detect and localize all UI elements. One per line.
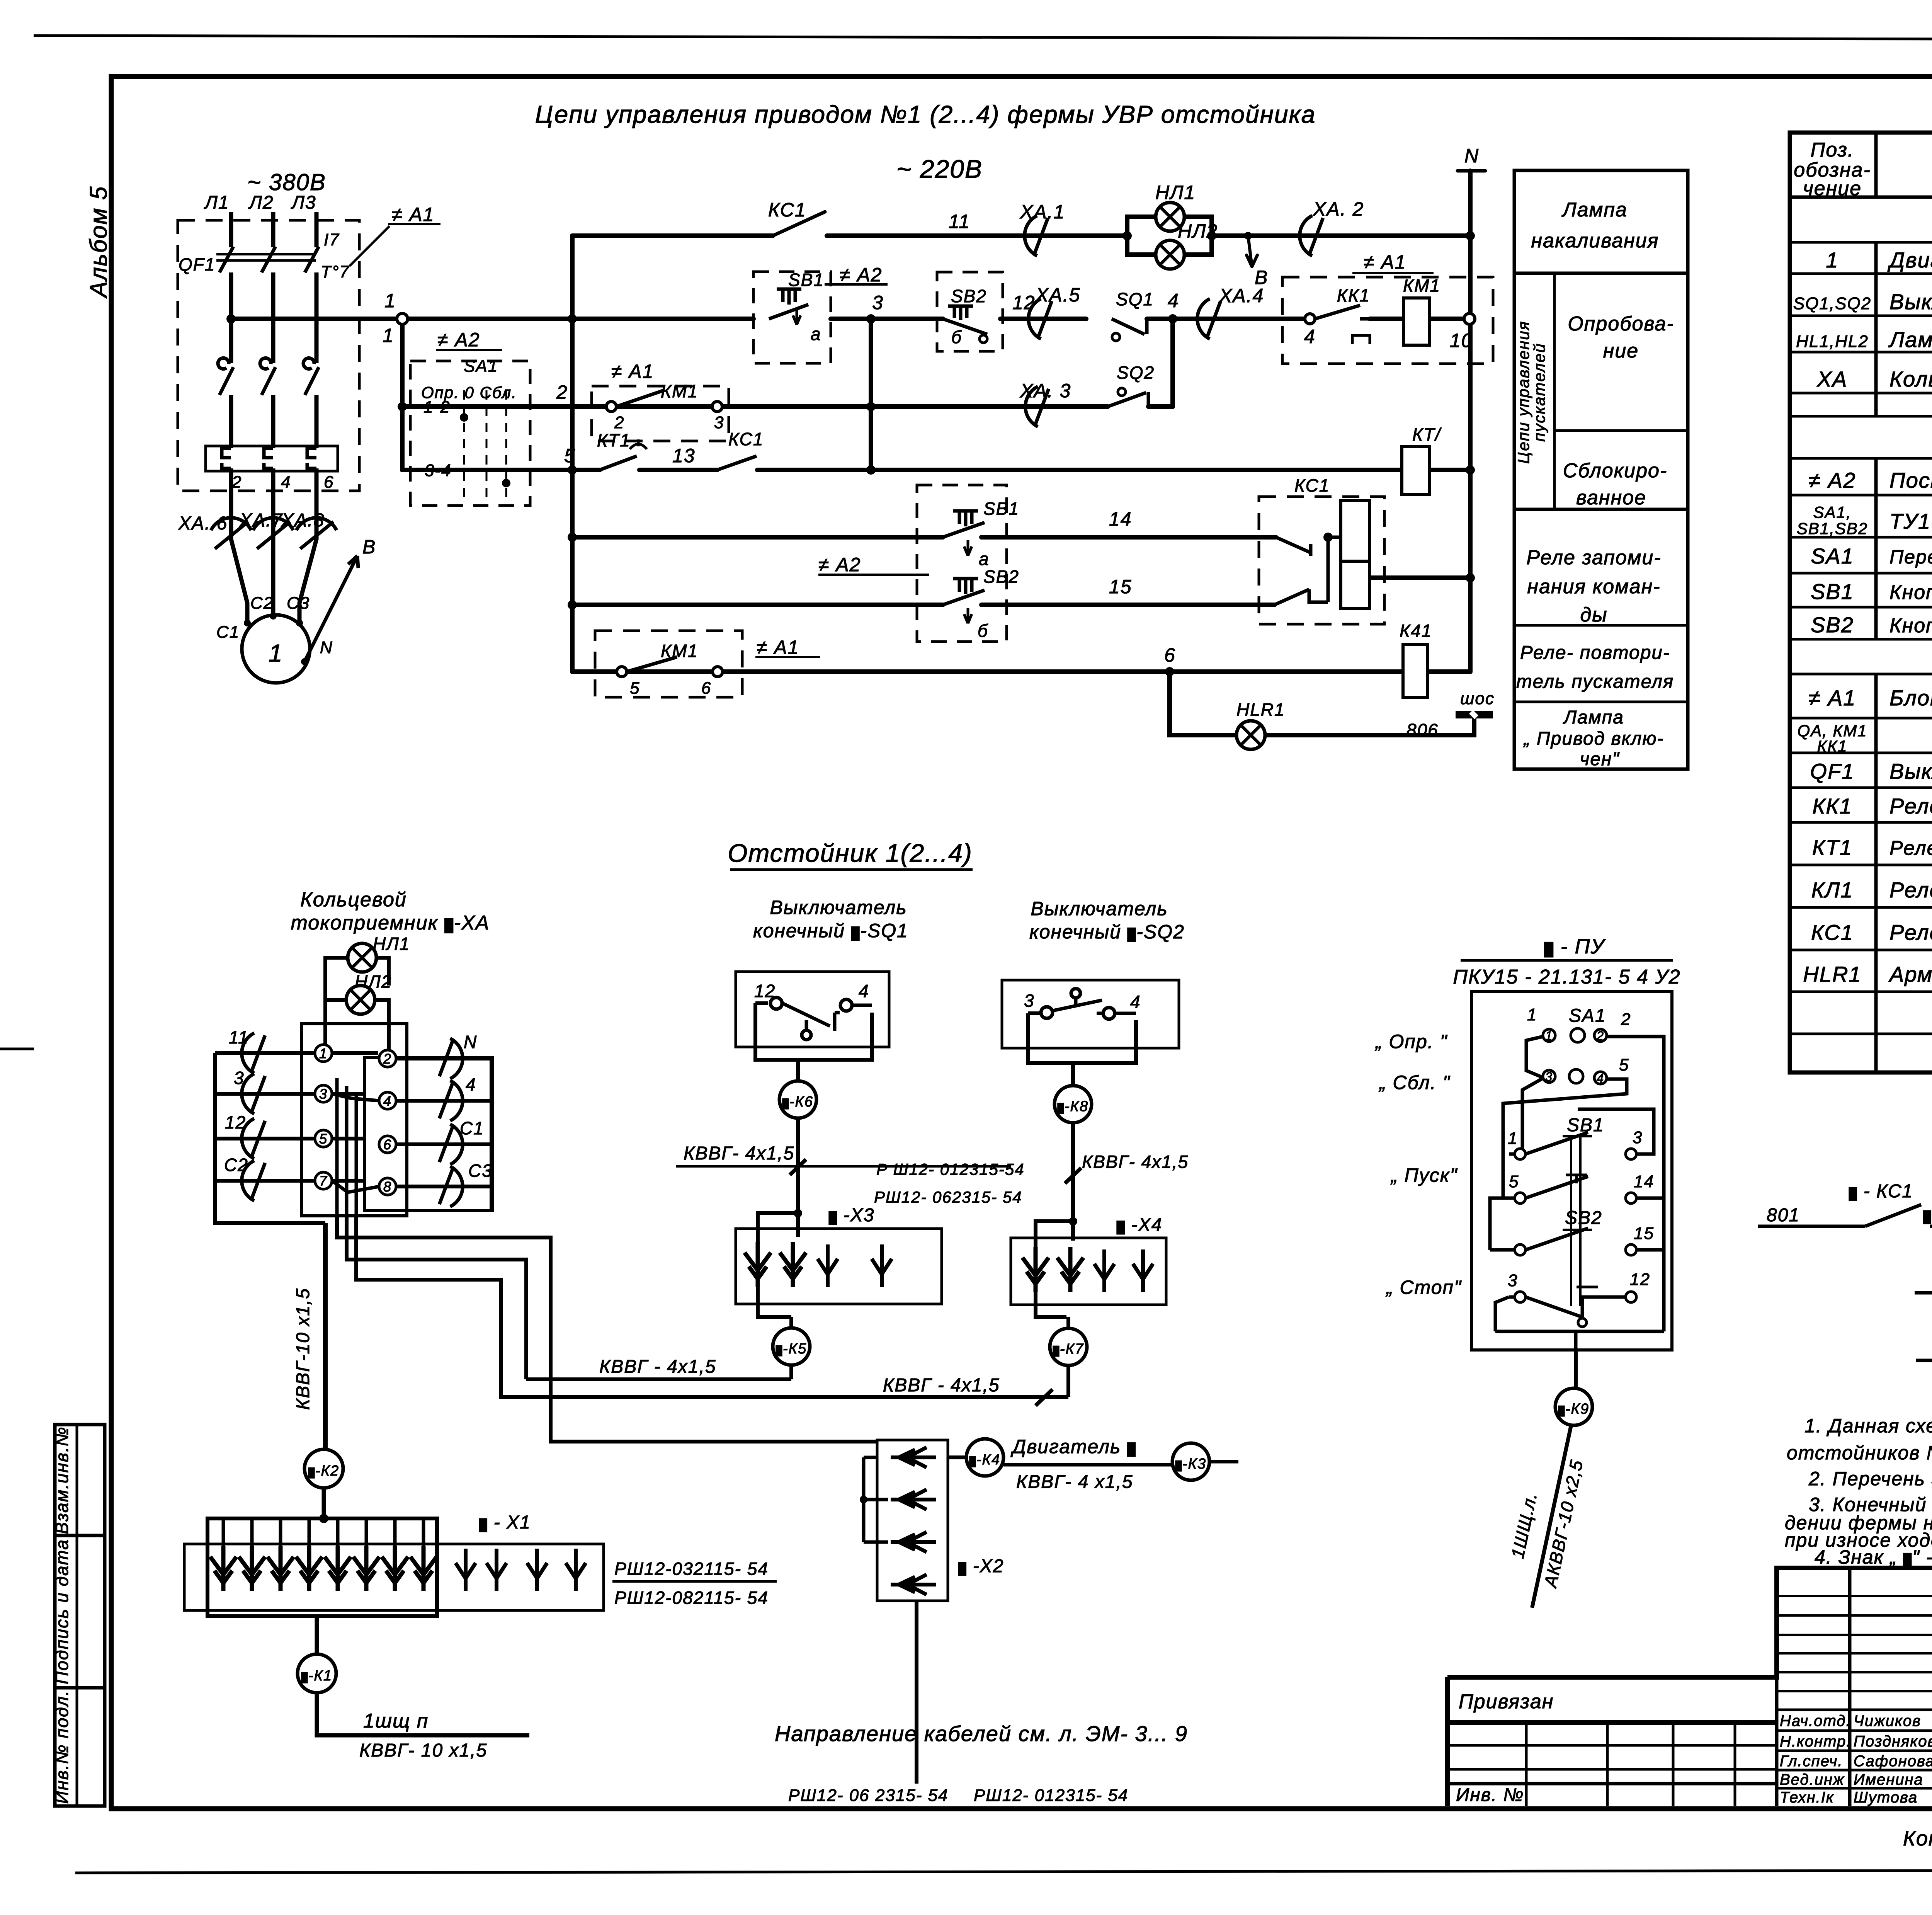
svg-text:Сафонова: Сафонова [1854, 1753, 1932, 1770]
svg-text:КЛ1: КЛ1 [1811, 878, 1854, 902]
N bus top tick [1458, 169, 1485, 173]
svg-text:1-2: 1-2 [423, 398, 451, 417]
SQ2 contact [1041, 989, 1136, 1019]
SA1 selector dashed box [410, 361, 530, 506]
svg-text:КВВГ- 10 х1,5: КВВГ- 10 х1,5 [359, 1740, 487, 1761]
svg-text:ХА. 2: ХА. 2 [1313, 198, 1364, 220]
connector XA.8 [296, 518, 337, 549]
svg-text:С3: С3 [287, 594, 310, 613]
svg-text:SА1: SА1 [464, 357, 498, 376]
svg-text:Двигатель █: Двигатель █ [1010, 1436, 1136, 1457]
svg-text:Отстойник 1(2...4): Отстойник 1(2...4) [728, 839, 973, 867]
svg-text:14: 14 [1109, 508, 1132, 530]
svg-text:█ -Х4: █ -Х4 [1117, 1215, 1162, 1235]
left feeder bus vertical [570, 236, 575, 672]
svg-text:2: 2 [1596, 1029, 1604, 1043]
svg-text:≠ А2: ≠ А2 [437, 329, 480, 351]
KC1 latch rect upper [1341, 500, 1369, 561]
X3 connector box [736, 1229, 942, 1304]
connector XA.7 [253, 518, 293, 549]
svg-text:РШ12- 012315- 54: РШ12- 012315- 54 [974, 1786, 1128, 1805]
table body texts [1793, 211, 1932, 986]
svg-text:Направление кабелей см. л.: Направление кабелей см. л. ЭМ- 3... 9 [775, 1721, 1188, 1746]
svg-text:4: 4 [281, 473, 291, 492]
svg-text:РШ12- 062315- 54: РШ12- 062315- 54 [874, 1188, 1022, 1206]
svg-text:КВВГ- 4 х1,5: КВВГ- 4 х1,5 [1016, 1472, 1133, 1492]
svg-text:С1: С1 [216, 623, 240, 642]
svg-text:3: 3 [1545, 1070, 1553, 1084]
X4 arrows [1022, 1247, 1049, 1292]
K2 cable marker [304, 1449, 343, 1488]
KT1 timed contact [600, 439, 647, 470]
svg-text:тель пускателя: тель пускателя [1516, 671, 1674, 692]
lower SB1 SB2 dashed box [917, 485, 1007, 642]
svg-text:Нач.отд.: Нач.отд. [1780, 1712, 1851, 1729]
svg-text:Чижиков: Чижиков [1854, 1712, 1921, 1729]
svg-text:Реле- повтори-: Реле- повтори- [1520, 642, 1670, 663]
svg-text:б: б [978, 621, 988, 641]
X1 top feeder drops [223, 1520, 423, 1548]
SB1 button symbol [769, 289, 808, 325]
terminal circles column 1 [315, 1045, 396, 1195]
rail 2 main control [231, 317, 1464, 321]
svg-text:Реле Iн.э = 2,5 А: Реле Iн.э = 2,5 А [1889, 794, 1932, 818]
svg-text:4: 4 [466, 1074, 476, 1095]
svg-text:2: 2 [383, 1051, 392, 1067]
svg-text:4: 4 [1304, 326, 1316, 347]
svg-text:Выключатель: Выключатель [1031, 898, 1168, 919]
svg-text:10: 10 [1450, 330, 1473, 351]
K9 cable down slanted [1532, 1425, 1571, 1608]
lamp HL1 [1156, 203, 1184, 231]
SQ2 box [1002, 980, 1179, 1048]
svg-text:1: 1 [1545, 1029, 1553, 1043]
svg-text:5: 5 [1509, 1172, 1519, 1191]
terminal numbers [319, 1045, 392, 1195]
header bottom [1790, 196, 1932, 199]
svg-text:Реле ВЛ- 67 ~ 220В В.В.-: Реле ВЛ- 67 ~ 220В В.В.-0,1-9,9с [1889, 837, 1932, 860]
SB1 link bar [1566, 1175, 1587, 1183]
X2 to K4 wire [948, 1455, 966, 1459]
svg-text:чение: чение [1803, 177, 1862, 200]
X2 motor connector box [877, 1440, 948, 1601]
legend outer box [1514, 170, 1688, 769]
left part col dividers [1526, 1723, 1735, 1806]
svg-text:„ Сбл. ": „ Сбл. " [1379, 1072, 1451, 1093]
svg-text:Л2: Л2 [248, 192, 274, 213]
svg-text:конечный █-SQ1: конечный █-SQ1 [753, 920, 908, 941]
lamp loop wiring [325, 958, 389, 1059]
svg-text:3: 3 [319, 1086, 328, 1102]
KM1 coil [1403, 298, 1430, 345]
svg-text:КМ1: КМ1 [1403, 276, 1440, 296]
svg-text:Переключатель ПЕ 081„ исп.1": Переключатель ПЕ 081„ исп.1" „ Опр-0-Сбл… [1889, 546, 1932, 568]
svg-text:Выключатель: Выключатель [770, 897, 907, 918]
svg-text:≠ А1: ≠ А1 [757, 637, 799, 658]
svg-text:Выключатель Iр 3,15А: Выключатель Iр 3,15А [1889, 759, 1932, 783]
svg-text:15: 15 [1109, 576, 1132, 597]
lamp HL1 [348, 943, 376, 972]
svg-text:ХА. 3: ХА. 3 [1020, 380, 1071, 402]
X1 arrows big [210, 1546, 586, 1591]
legend rotated col divider [1553, 273, 1556, 509]
legend row line mid [1554, 429, 1688, 432]
svg-text:Взам.инв.№: Взам.инв.№ [52, 1426, 72, 1534]
rail 3 circuit 1-2 [402, 324, 1173, 470]
svg-text:ды: ды [1580, 604, 1607, 626]
K3 cable marker [1172, 1443, 1209, 1480]
svg-text:~ 380В: ~ 380В [247, 169, 326, 195]
svg-text:ванное: ванное [1576, 487, 1646, 509]
SQ2 to K8 wire [1071, 1063, 1075, 1086]
svg-text:≠ А2: ≠ А2 [1809, 468, 1856, 492]
K6 cable marker [779, 1081, 816, 1118]
svg-text:Двигатель 4АМХ71В4 0,75кВт: Двигатель 4АМХ71В4 0,75кВт. ~380В [1887, 248, 1932, 272]
svg-text:1шщ п: 1шщ п [363, 1710, 429, 1732]
left chevrons [242, 1033, 265, 1073]
svg-text:Л1: Л1 [204, 192, 230, 213]
KC1 contact blade on rail 11 [773, 212, 825, 236]
svg-text:Привязан: Привязан [1459, 1690, 1554, 1713]
svg-text:801: 801 [1767, 1205, 1800, 1226]
svg-text:НL1,НL2: НL1,НL2 [1796, 332, 1869, 351]
X2 bottom cable [915, 1601, 918, 1784]
svg-text:нания коман-: нания коман- [1527, 575, 1660, 598]
SA1 wiring [1503, 1037, 1664, 1331]
svg-text:1. Данная схема приведена: 1. Данная схема приведена для отстойника… [1804, 1415, 1932, 1437]
connector XA.1 [1025, 216, 1048, 256]
svg-text:12: 12 [754, 981, 776, 1001]
svg-text:„ Стоп": „ Стоп" [1386, 1277, 1462, 1298]
svg-text:2: 2 [1621, 1010, 1631, 1029]
K4 to K3 wire [1003, 1463, 1172, 1467]
SQ1 contact loop [755, 1003, 872, 1060]
svg-text:НLR1: НLR1 [1803, 962, 1861, 986]
svg-text:КК1: КК1 [1812, 794, 1852, 818]
svg-text:Вед.инж: Вед.инж [1780, 1771, 1844, 1788]
K8 cable marker [1054, 1086, 1092, 1123]
svg-text:С3: С3 [468, 1161, 493, 1181]
SQ1 limit switch [1112, 319, 1147, 341]
X3 arrows [745, 1242, 771, 1287]
svg-text:ХА.1: ХА.1 [1020, 201, 1065, 223]
QA contactor poles [218, 358, 319, 395]
junction dots [226, 231, 1475, 676]
svg-text:N: N [1464, 145, 1479, 167]
SQ1 box [736, 972, 889, 1047]
svg-text:N: N [464, 1032, 477, 1052]
node3 vertical [869, 319, 873, 470]
HLR1 branch [1170, 672, 1474, 735]
connector XA.2 [1300, 216, 1323, 256]
svg-text:чен": чен" [1580, 749, 1620, 769]
PU bottom bus [1495, 1331, 1664, 1350]
svg-text:Техн.Iк: Техн.Iк [1780, 1789, 1834, 1806]
X1 connector inner rect [207, 1518, 437, 1616]
K7 wires [1036, 1317, 1068, 1406]
thermal heater elements [222, 448, 316, 468]
svg-text:Н.контр.: Н.контр. [1780, 1733, 1851, 1750]
lamp parallel loop [1127, 217, 1212, 255]
svg-text:Кольцевой: Кольцевой [300, 889, 407, 911]
svg-text:█ - КС1: █ - КС1 [1849, 1181, 1913, 1202]
legend row line 1 [1514, 272, 1688, 275]
svg-text:ХА: ХА [1816, 367, 1848, 391]
SA1 terminals row1 [1543, 1028, 1607, 1084]
shos busbar terminal [1456, 711, 1493, 718]
SB2 button symbol [943, 306, 987, 343]
legend row line 4 [1514, 701, 1688, 703]
svg-text:Позднякова: Позднякова [1854, 1733, 1932, 1750]
svg-text:SQ1: SQ1 [1116, 289, 1154, 309]
svg-text:SВ1: SВ1 [788, 270, 824, 290]
K4 cable marker [966, 1439, 1003, 1476]
HLR1 lamp [1236, 721, 1265, 749]
svg-text:пускателей: пускателей [1530, 343, 1548, 442]
KK1 thermal contact [1315, 305, 1370, 344]
svg-text:КС1: КС1 [1294, 475, 1330, 495]
signature grid upper rows [1777, 1596, 1932, 1691]
svg-text:1: 1 [383, 325, 394, 346]
svg-text:12: 12 [1630, 1270, 1650, 1289]
svg-text:5: 5 [564, 445, 576, 466]
svg-text:█ - ПУ: █ - ПУ [1544, 935, 1606, 958]
X2 inner link [864, 1457, 888, 1542]
legend row line 2 [1514, 508, 1688, 511]
KC1 latch rect lower [1341, 561, 1369, 609]
svg-text:4: 4 [1130, 992, 1141, 1012]
node4 vertical [1170, 319, 1175, 407]
svg-text:806: 806 [1406, 720, 1439, 740]
X1 connector outer rect [184, 1544, 604, 1610]
label underlines [436, 273, 1434, 657]
svg-text:Реле запоми-: Реле запоми- [1526, 546, 1661, 569]
svg-text:Лампа: Лампа [1561, 199, 1628, 221]
svg-text:Блок Б5130 - 2474 УХЛ4: Блок Б5130 - 2474 УХЛ4 [1889, 686, 1932, 710]
svg-text:QF1: QF1 [179, 254, 215, 274]
SB1 contact 5-14 [1515, 1193, 1526, 1203]
svg-text:≠ А1: ≠ А1 [1364, 251, 1406, 273]
svg-text:6: 6 [324, 473, 334, 492]
svg-text:2: 2 [614, 413, 624, 432]
A1 block dashed box (KK1 KM1) [1282, 277, 1493, 364]
svg-text:1: 1 [319, 1045, 328, 1061]
motor terminal dots [244, 620, 251, 626]
svg-text:РШ12-082115- 54: РШ12-082115- 54 [614, 1588, 769, 1608]
X4 bypass loop [1036, 1144, 1073, 1317]
SB1 shaft [1563, 1136, 1592, 1306]
svg-text:Кнопка КЕ 081 „ исп.1" „4": Кнопка КЕ 081 „ исп.1" „4" „ Пуск" [1889, 581, 1932, 604]
svg-text:КВВГ- 4х1,5: КВВГ- 4х1,5 [1082, 1152, 1189, 1172]
svg-text:накаливания: накаливания [1531, 230, 1659, 252]
svg-text:Арматура АС12011У2 ~ 220: Арматура АС12011У2 ~ 220 В [1888, 962, 1932, 986]
svg-text:„ Привод вклю-: „ Привод вклю- [1523, 729, 1664, 749]
svg-text:3: 3 [872, 292, 884, 313]
internal cross wiring [332, 1078, 379, 1216]
svg-text:N: N [320, 638, 333, 657]
svg-text:„ Опр. ": „ Опр. " [1375, 1031, 1448, 1052]
svg-text:КВВГ- 4х1,5: КВВГ- 4х1,5 [684, 1143, 794, 1164]
svg-text:КС1: КС1 [1811, 920, 1854, 945]
svg-text:Гл.спеч.: Гл.спеч. [1780, 1753, 1843, 1770]
svg-text:3: 3 [1024, 991, 1035, 1011]
svg-text:КС1: КС1 [728, 429, 764, 449]
svg-text:Копир. Гольденбаум: Копир. Гольденбаум [1903, 1827, 1932, 1850]
svg-text:1: 1 [384, 290, 396, 312]
SQ2 limit switch [1108, 388, 1148, 407]
svg-text:4: 4 [383, 1093, 392, 1109]
outer thin bottom border line [75, 1870, 1932, 1873]
left part rows [1447, 1744, 1777, 1747]
svg-text:█ -Х3: █ -Х3 [829, 1205, 874, 1226]
SB2 stop button box (rail2) [937, 272, 1003, 351]
svg-text:≠ А1: ≠ А1 [1809, 686, 1856, 710]
svg-text:Сблокиро-: Сблокиро- [1563, 460, 1668, 482]
svg-text:13: 13 [672, 445, 696, 466]
svg-text:SВ2: SВ2 [1565, 1208, 1602, 1228]
svg-text:6: 6 [701, 679, 711, 698]
svg-text:С1: С1 [460, 1118, 484, 1138]
outer thin top border line [34, 36, 1932, 40]
table header texts [1794, 139, 1932, 200]
KM1 self hold contact box [595, 631, 742, 697]
KL1 coil [1403, 645, 1427, 698]
KC1 contact (rail4) [717, 456, 757, 470]
svg-text:2. Перечень элементов привед: 2. Перечень элементов приведен на один о… [1808, 1468, 1932, 1489]
svg-text:Р Ш12- 012315-54: Р Ш12- 012315-54 [876, 1160, 1025, 1178]
svg-text:5: 5 [630, 679, 640, 698]
svg-text:КВВГ - 4х1,5: КВВГ - 4х1,5 [883, 1375, 1000, 1396]
svg-text:1: 1 [1527, 1005, 1537, 1024]
K8 cable down with slash [1065, 1123, 1081, 1183]
svg-text:15: 15 [1634, 1224, 1654, 1243]
KM1 self hold contact 5-6 [617, 667, 627, 677]
K7 cable marker [1050, 1328, 1087, 1365]
svg-text:2: 2 [231, 473, 242, 492]
KC1 latching relay dashed box [1259, 497, 1384, 624]
svg-text:Кольцевой токоприемник: Кольцевой токоприемник [1889, 367, 1932, 391]
QF1 linkage [216, 254, 316, 260]
svg-text:Опробова-: Опробова- [1568, 313, 1674, 335]
svg-text:12: 12 [1012, 292, 1036, 313]
svg-text:ХА.4: ХА.4 [1219, 285, 1264, 306]
K9 cable marker [1555, 1388, 1592, 1425]
svg-text:КТ/: КТ/ [1412, 424, 1442, 444]
svg-text:1: 1 [1826, 248, 1838, 272]
svg-text:1: 1 [269, 639, 283, 667]
signature labels [1780, 1712, 1932, 1806]
svg-text:КК1: КК1 [1337, 285, 1370, 305]
svg-text:Кнопка КЕ141 „ исп.2" „К": Кнопка КЕ141 „ исп.2" „К" „Стоп" [1889, 615, 1932, 637]
svg-text:8: 8 [383, 1179, 392, 1195]
svg-text:SВ1,SВ2: SВ1,SВ2 [1797, 519, 1868, 538]
svg-text:3: 3 [1508, 1271, 1518, 1290]
svg-text:а: а [979, 549, 990, 569]
svg-text:КТ1: КТ1 [597, 430, 631, 450]
QF1 breaker blades [216, 247, 319, 272]
svg-text:Реле РПУ2-36200 ~ 220: Реле РПУ2-36200 ~ 220 В [1889, 878, 1932, 902]
SB2 contact 15 [1515, 1244, 1526, 1255]
svg-text:НЛ1: НЛ1 [1155, 182, 1196, 203]
svg-text:Шутова: Шутова [1854, 1789, 1918, 1806]
SB2 lower button [943, 579, 985, 623]
K5 cable marker [773, 1328, 810, 1365]
legend row line 3 [1514, 624, 1688, 627]
svg-text:SQ1,SQ2: SQ1,SQ2 [1793, 294, 1871, 313]
svg-text:НЛ1: НЛ1 [373, 934, 410, 954]
schematic small labels [383, 145, 1495, 740]
svg-text:≠ А1: ≠ А1 [392, 204, 435, 225]
svg-text:1: 1 [1508, 1129, 1518, 1148]
terminal circle 4 [1305, 314, 1315, 324]
SB2 contact 3-12 [1515, 1292, 1526, 1302]
three phase lines [231, 212, 316, 621]
svg-text:I7: I7 [324, 230, 340, 249]
svg-text:ПКУ15 - 21.131- 5 4 У2: ПКУ15 - 21.131- 5 4 У2 [1453, 966, 1680, 988]
K6 cable down with slash [790, 1118, 806, 1213]
rail 5 circuit 14 [572, 535, 1276, 540]
svg-text:С2: С2 [250, 594, 274, 613]
svg-text:SА1,: SА1, [1813, 503, 1851, 521]
svg-text:ХА.5: ХА.5 [1035, 284, 1080, 306]
K1 cable marker [298, 1654, 336, 1693]
rail 6 circuit 15 [572, 603, 1274, 607]
motor circle [242, 615, 310, 683]
svg-text:Т°7: Т°7 [321, 262, 350, 281]
svg-text:Инв.№ подл.: Инв.№ подл. [52, 1690, 72, 1804]
svg-text:КМ1: КМ1 [661, 381, 698, 401]
table outer rect [1790, 133, 1932, 1072]
left terminal rails [215, 1053, 492, 1223]
svg-text:НLR1: НLR1 [1236, 700, 1285, 720]
svg-text:ТУ16-526.333-83: ТУ16-526.333-83 [1889, 509, 1932, 533]
wire B arrow tap [1247, 236, 1257, 267]
KM1 aux contact 2-3 box [592, 386, 729, 441]
svg-text:2: 2 [556, 381, 568, 403]
left margin box column [55, 1425, 105, 1806]
rail 4 circuit 3-4 [402, 468, 1470, 472]
svg-text:ние: ние [1603, 340, 1639, 362]
svg-text:Реле РП-12 ~ 220В: Реле РП-12 ~ 220В [1889, 920, 1932, 945]
svg-text:14: 14 [1634, 1172, 1654, 1191]
K3 tail wire [1209, 1460, 1238, 1464]
X2 arrows [891, 1447, 936, 1467]
svg-text:ХА. 6: ХА. 6 [178, 513, 228, 534]
svg-text:Лампа накаливания 60Вт ~ 22: Лампа накаливания 60Вт ~ 220В [1888, 327, 1932, 352]
right chevrons [439, 1038, 463, 1079]
svg-text:4: 4 [1168, 290, 1179, 312]
node 1 circle [397, 313, 408, 324]
SA1 position dots [460, 413, 468, 422]
SQ1 to K6 wire [796, 1060, 800, 1081]
svg-text:≠ А1: ≠ А1 [611, 361, 654, 382]
rail 11 lamp circuit [572, 233, 1470, 238]
svg-text:█ - Х1: █ - Х1 [479, 1512, 531, 1533]
SQ2 contact loop [1028, 1013, 1136, 1063]
svg-text:Л3: Л3 [291, 192, 316, 213]
QF1 dashed box [178, 220, 359, 491]
connector XA.6 [211, 518, 251, 549]
PU to K9 wire [1574, 1350, 1578, 1388]
svg-text:„ Пуск": „ Пуск" [1390, 1164, 1458, 1186]
X3 bypass loop [758, 1213, 798, 1317]
svg-text:4. Знак „ █" - заменяется: 4. Знак „ █" - заменяется номером привод… [1815, 1546, 1932, 1568]
svg-text:КВВГ-10 х1,5: КВВГ-10 х1,5 [293, 1288, 313, 1410]
svg-text:SВ2: SВ2 [983, 567, 1019, 587]
svg-text:SА1: SА1 [1569, 1006, 1606, 1026]
svg-text:7: 7 [319, 1173, 328, 1189]
svg-text:11: 11 [949, 211, 970, 232]
